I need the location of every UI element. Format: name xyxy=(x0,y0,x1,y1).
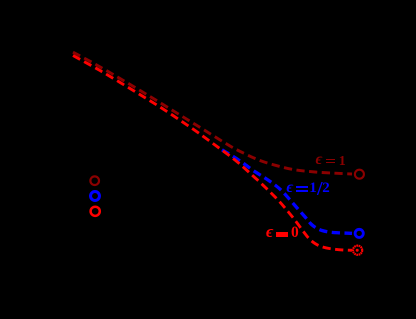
curve eps=1 (dark red) xyxy=(73,52,352,174)
end marker eps=1 (dark red open circle) xyxy=(355,170,364,179)
left marker red circle xyxy=(91,207,100,216)
label eps = 0 xyxy=(266,223,273,240)
left marker dark red circle xyxy=(90,176,99,185)
curve eps=1/2 (blue, drawn first, hidden under others at top-left) xyxy=(222,150,352,234)
end marker eps=1/2 (blue open circle) xyxy=(355,229,363,237)
end marker eps=0 (red dotted circle with center dot) xyxy=(353,246,362,255)
curve eps=0 (bright red) xyxy=(73,56,352,251)
label eps = 1/2 xyxy=(286,180,293,196)
left marker blue circle xyxy=(91,192,100,201)
label eps = 1 xyxy=(316,152,323,168)
